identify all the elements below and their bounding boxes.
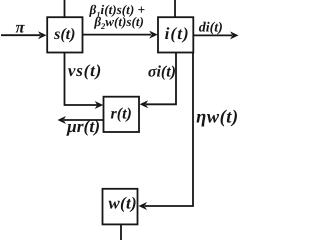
wire: pi input arrow into s(t) bbox=[1, 34, 40, 36]
wire: sigma i(t) path from i(t) down into r(t) bbox=[146, 53, 176, 105]
wire: s(t) to i(t) infection arrow bbox=[83, 34, 152, 36]
svg-text:r(t): r(t) bbox=[111, 106, 132, 123]
svg-text:w(t): w(t) bbox=[108, 194, 137, 213]
block w(t) bbox=[103, 189, 138, 225]
wire: top input stub into s(t) bbox=[64, 0, 66, 17]
block s(t) bbox=[47, 17, 82, 52]
svg-text:di(t): di(t) bbox=[199, 20, 223, 35]
svg-text:s(t): s(t) bbox=[53, 26, 75, 43]
svg-text:ηw(t): ηw(t) bbox=[196, 108, 238, 128]
block r(t) bbox=[104, 97, 140, 132]
wire: di(t) output arrow bbox=[193, 34, 232, 36]
svg-text:νs(t): νs(t) bbox=[68, 61, 102, 80]
svg-text:β2w(t)s(t): β2w(t)s(t) bbox=[93, 14, 144, 31]
block i(t) bbox=[158, 17, 193, 52]
svg-text:σi(t): σi(t) bbox=[148, 64, 176, 81]
wire: top input stub into i(t) bbox=[174, 0, 176, 17]
wire: eta w(t) path from i(t) bottom-right down into w(t) bbox=[145, 53, 193, 207]
svg-text:i(t): i(t) bbox=[165, 24, 190, 43]
svg-text:μr(t): μr(t) bbox=[66, 116, 100, 136]
svg-text:π: π bbox=[15, 17, 25, 36]
wire: mu r(t) output arrow to the left bbox=[64, 119, 104, 121]
wire: nu s(t) path from s(t) down into r(t) bbox=[65, 53, 98, 106]
wire: bottom output stub from w(t) bbox=[120, 224, 122, 240]
